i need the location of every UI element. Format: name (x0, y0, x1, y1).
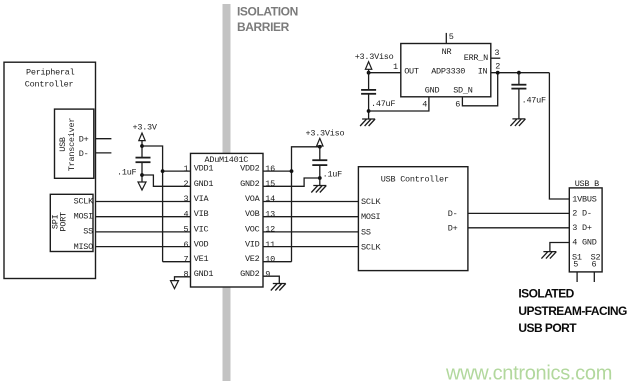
wire GND1 pin 8 (175, 277, 191, 281)
svg-text:6: 6 (183, 240, 188, 250)
svg-text:10: 10 (265, 254, 275, 264)
svg-text:SS: SS (83, 227, 93, 237)
svg-text:6: 6 (455, 99, 460, 109)
svg-text:GND: GND (425, 86, 440, 96)
svg-text:VOA: VOA (245, 194, 261, 204)
wire VBUS feed (549, 73, 569, 199)
svg-text:BARRIER: BARRIER (237, 20, 290, 34)
wire D- stub (95, 152, 111, 154)
svg-text:VE1: VE1 (194, 254, 209, 264)
wire D+ to USB B (468, 227, 569, 229)
wire +3.3V rail (141, 141, 143, 158)
svg-text:VOB: VOB (245, 209, 260, 219)
ground G5 iso (360, 119, 375, 126)
USB transceiver block (55, 109, 94, 178)
wire SCLK to VIA (96, 201, 191, 203)
svg-text:GND2: GND2 (240, 269, 260, 279)
svg-text:VIA: VIA (194, 194, 210, 204)
wire VE2 pin 10 (263, 261, 292, 263)
svg-text:.1uF: .1uF (323, 170, 343, 180)
svg-text:VOC: VOC (245, 224, 260, 234)
wire C5 top (518, 73, 520, 85)
svg-text:2: 2 (183, 179, 188, 189)
svg-text:2: 2 (495, 62, 500, 72)
svg-text:USB PORT: USB PORT (518, 321, 577, 335)
ground G2 (171, 281, 179, 289)
svg-text:7: 7 (183, 254, 188, 264)
svg-text:3: 3 (494, 48, 499, 58)
capacitor C2 .1uF iso (312, 160, 342, 179)
svg-text:1VBUS: 1VBUS (572, 194, 596, 204)
svg-text:SCLK: SCLK (361, 197, 382, 207)
capacitor C1 .1uF (117, 158, 151, 178)
svg-text:D-: D- (448, 209, 458, 219)
regulator U3 ADP3330 (401, 44, 491, 97)
svg-text:USB Controller: USB Controller (381, 175, 449, 185)
svg-text:8: 8 (183, 269, 188, 279)
svg-text:1: 1 (183, 164, 188, 174)
peripheral controller box (4, 62, 96, 278)
+3.3V power arrow (139, 133, 145, 141)
wire VOA to controller SCLK (263, 201, 358, 203)
wire C2 bottom (319, 165, 321, 185)
wire VID to controller SCLK (263, 246, 358, 248)
svg-text:+3.3Viso: +3.3Viso (306, 128, 345, 138)
pin 2 IN wire (491, 62, 550, 73)
node SD_N/IN (496, 71, 500, 75)
svg-text:NR: NR (442, 47, 452, 57)
svg-text:MOSI: MOSI (361, 212, 381, 222)
pin 1 OUT wire (369, 62, 401, 73)
svg-text:SCLK: SCLK (361, 243, 382, 253)
svg-text:D-: D- (79, 149, 89, 159)
wire OUT to C4 (368, 69, 370, 90)
svg-text:.47uF: .47uF (522, 95, 546, 105)
USB controller U2 (358, 167, 468, 271)
wire VDD2/VE2 branch (292, 147, 320, 262)
svg-text:3 D+: 3 D+ (572, 223, 592, 233)
svg-text:D+: D+ (448, 223, 458, 233)
pin 4 GND wire (369, 97, 429, 111)
ground G4 iso (271, 284, 286, 291)
svg-text:VIC: VIC (194, 224, 209, 234)
node Viso (318, 145, 322, 149)
wire SS to VIC (96, 231, 191, 233)
svg-text:IN: IN (478, 67, 488, 77)
node C5 top (517, 71, 521, 75)
svg-text:ISOLATED: ISOLATED (518, 287, 574, 301)
capacitor C4 .47uF (361, 90, 395, 109)
node C1 gnd (140, 173, 144, 177)
svg-text:4: 4 (422, 99, 427, 109)
wire D+ stub (95, 138, 111, 140)
svg-text:+3.3Viso: +3.3Viso (355, 52, 394, 62)
ground G7 iso (541, 252, 556, 259)
wire C5 bottom (518, 89, 520, 119)
svg-text:D+: D+ (79, 135, 89, 145)
svg-text:OUT: OUT (404, 67, 419, 77)
wire MOSI to VIB (96, 216, 191, 218)
svg-text:UPSTREAM-FACING: UPSTREAM-FACING (518, 304, 627, 318)
wire C2 top (319, 147, 321, 160)
svg-text:GND1: GND1 (194, 269, 214, 279)
svg-text:2 D-: 2 D- (572, 209, 591, 219)
svg-text:ERR_N: ERR_N (464, 53, 488, 63)
svg-text:PORT: PORT (59, 212, 69, 232)
svg-text:.1uF: .1uF (117, 168, 137, 178)
svg-text:GND1: GND1 (194, 179, 214, 189)
wire C4 bottom (368, 94, 370, 119)
wire VDD1/VE1 branch (142, 146, 163, 262)
wire GND2 pin 9 (263, 276, 279, 283)
svg-text:Transceiver: Transceiver (67, 118, 77, 172)
node VDD2 (290, 169, 294, 173)
svg-text:13: 13 (265, 209, 275, 219)
SPI port block (50, 194, 94, 252)
svg-text:VDD2: VDD2 (240, 164, 260, 174)
svg-text:VIB: VIB (194, 209, 209, 219)
wire VE1 pin 7 (163, 261, 191, 263)
svg-text:14: 14 (265, 194, 275, 204)
svg-text:MISO: MISO (74, 242, 94, 252)
svg-text:9: 9 (265, 269, 270, 279)
svg-text:5: 5 (183, 225, 188, 235)
svg-text:4: 4 (183, 209, 188, 219)
svg-text:15: 15 (265, 179, 275, 189)
pin S1 stub (576, 272, 578, 282)
capacitor C5 .47uF (511, 85, 546, 106)
svg-text:5: 5 (573, 259, 578, 269)
svg-text:SS: SS (361, 227, 371, 237)
pin S2 stub (593, 272, 595, 282)
wire USB B GND pin 4 (550, 243, 569, 252)
svg-text:16: 16 (265, 164, 275, 174)
node C4 gnd (367, 109, 371, 113)
wire GND1 pin 2 (142, 175, 191, 186)
wire GND2 pin 15 (263, 178, 320, 186)
caption isolated usb port (518, 287, 627, 336)
svg-text:Controller: Controller (25, 80, 74, 90)
wire VOC to controller SS (263, 231, 358, 233)
svg-text:Peripheral: Peripheral (26, 68, 75, 78)
svg-text:1: 1 (393, 62, 398, 72)
ground G3 iso (311, 186, 326, 193)
IC U1 ADuM1401C digital isolator (183, 153, 275, 287)
svg-text:3: 3 (183, 194, 188, 204)
power arrow A3 (365, 62, 371, 70)
node VDD1 (161, 169, 165, 173)
svg-text:ADP3330: ADP3330 (431, 67, 465, 77)
svg-text:ISOLATION: ISOLATION (237, 5, 298, 19)
svg-text:+3.3V: +3.3V (133, 123, 158, 133)
svg-text:VID: VID (245, 240, 260, 250)
wire D- to USB B (468, 212, 569, 214)
svg-text:VOD: VOD (194, 240, 209, 250)
svg-text:5: 5 (449, 32, 454, 42)
ground G6 iso (510, 119, 525, 126)
node +3.3V (140, 144, 144, 148)
pin 5 NR stub (446, 32, 454, 44)
svg-text:11: 11 (265, 240, 275, 250)
wire VDD2 pin 16 (263, 170, 292, 172)
svg-text:www.cntronics.com: www.cntronics.com (445, 363, 612, 385)
connector J1 USB B (569, 179, 602, 272)
svg-text:VDD1: VDD1 (194, 164, 214, 174)
pin 3 ERR_N stub (491, 48, 501, 58)
svg-text:12: 12 (265, 225, 275, 235)
ground G1 (138, 182, 146, 190)
svg-text:SD_N: SD_N (453, 86, 473, 96)
svg-text:.47uF: .47uF (371, 99, 395, 109)
node OUT (367, 71, 371, 75)
svg-text:USB B: USB B (575, 179, 599, 189)
svg-text:MOSI: MOSI (74, 212, 94, 222)
node C2 gnd (318, 176, 322, 180)
wire MISO to VOD (96, 246, 191, 248)
svg-text:VE2: VE2 (245, 254, 260, 264)
isolation barrier bar (223, 4, 231, 381)
pin 6 SD_N wire (455, 73, 498, 110)
svg-text:SCLK: SCLK (74, 196, 95, 206)
svg-text:4 GND: 4 GND (572, 238, 596, 248)
isolation barrier label (237, 5, 298, 35)
wire VDD1 pin 1 (163, 170, 191, 172)
wire VOB to controller MOSI (263, 216, 358, 218)
+3.3Viso power arrow A2 (317, 138, 323, 146)
svg-text:GND2: GND2 (240, 179, 260, 189)
svg-text:6: 6 (592, 259, 597, 269)
wire C1 bottom (141, 162, 143, 182)
